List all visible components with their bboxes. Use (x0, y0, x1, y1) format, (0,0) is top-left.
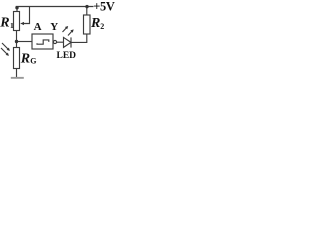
svg-text:2: 2 (100, 22, 104, 31)
svg-text:LED: LED (57, 51, 77, 61)
svg-text:1: 1 (10, 21, 14, 30)
svg-text:G: G (30, 57, 36, 66)
svg-text:R: R (20, 52, 30, 67)
svg-text:Y: Y (50, 21, 58, 33)
svg-text:R: R (0, 16, 10, 31)
svg-text:A: A (34, 21, 42, 33)
svg-text:+5V: +5V (93, 0, 115, 13)
svg-text:R: R (90, 16, 100, 31)
